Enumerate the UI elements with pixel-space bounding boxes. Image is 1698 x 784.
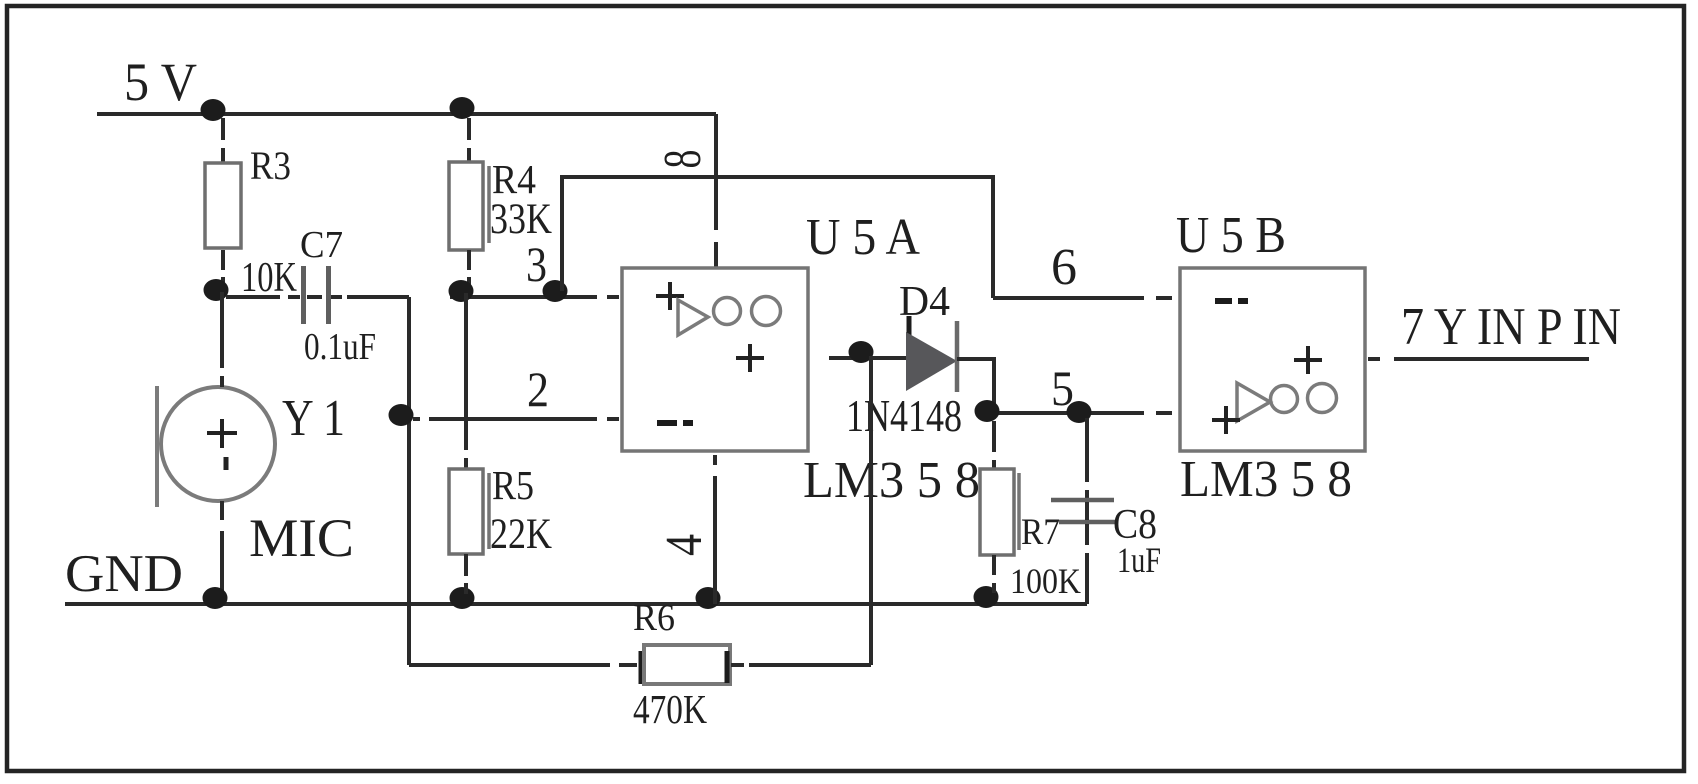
wire C7 node vertical branch [407, 297, 411, 665]
diode D4 [906, 316, 957, 392]
wire U5B output [1368, 357, 1589, 361]
wire D4 cathode to pin5 corner [957, 359, 994, 413]
resistor R3 [205, 163, 241, 248]
wire U5A output [829, 356, 906, 360]
wire pin6 input [993, 296, 1172, 300]
wire R4 bottom lead [467, 250, 471, 288]
svg-text:0.1uF: 0.1uF [304, 326, 376, 368]
wire pin3 input [450, 295, 619, 299]
svg-text:5 V: 5 V [124, 52, 197, 112]
svg-text:MIC: MIC [249, 508, 354, 568]
wire R3 bottom lead [221, 250, 225, 288]
node junction 5V-R3 [201, 99, 226, 121]
node GND-pin4 [696, 587, 721, 609]
svg-text:22K: 22K [490, 511, 552, 558]
resistor R5 [449, 469, 489, 554]
node GND-R7 [974, 586, 999, 608]
wire pin2 input [413, 417, 619, 421]
svg-text:1N4148: 1N4148 [846, 390, 962, 441]
resistor R6 [641, 645, 730, 684]
svg-text:GND: GND [65, 545, 183, 603]
node pin3-toplink [543, 280, 568, 302]
svg-text:R7: R7 [1021, 512, 1060, 553]
svg-text:2: 2 [527, 361, 549, 417]
capacitor C8 [1051, 500, 1118, 522]
node pin3-R4 [449, 280, 474, 302]
node output-feedback [849, 341, 874, 363]
svg-text:470K: 470K [633, 686, 707, 732]
svg-text:8: 8 [654, 150, 712, 169]
svg-text:R5: R5 [492, 462, 534, 508]
svg-text:100K: 100K [1010, 561, 1081, 601]
svg-text:D4: D4 [899, 279, 950, 325]
svg-text:R3: R3 [250, 143, 291, 188]
node GND-MIC [203, 587, 228, 609]
microphone Y1 [157, 386, 275, 507]
resistor R4 [449, 162, 489, 250]
svg-text:1uF: 1uF [1117, 540, 1161, 580]
wire 5V rail [97, 112, 716, 116]
wire pin5 input [994, 411, 1172, 415]
wire R4-R5 vertical [464, 293, 468, 469]
svg-text:C7: C7 [300, 224, 343, 266]
wire Y1 top lead [220, 292, 224, 387]
op-amp U5A [622, 268, 808, 451]
wire Y1 bottom lead [220, 501, 224, 604]
wire pin3 to pin6 top link [562, 177, 993, 298]
wire feedback riser [869, 356, 873, 665]
wire C7 left lead [226, 295, 300, 299]
node junction 5V-R4 [450, 97, 475, 119]
wire R7 bottom lead [992, 555, 996, 593]
wire C8 bottom lead [1085, 502, 1089, 604]
wire GND rail [65, 602, 1087, 606]
node pin2-feedback [389, 404, 414, 426]
svg-text:U 5 A: U 5 A [806, 209, 920, 266]
svg-text:6: 6 [1051, 239, 1077, 296]
capacitor C7 [304, 266, 329, 324]
svg-text:Y 1: Y 1 [282, 390, 345, 447]
node pin5-R7 [975, 400, 1000, 422]
resistor R7 [980, 469, 1019, 555]
svg-text:LM3 5 8: LM3 5 8 [803, 452, 980, 509]
wire feedback bottom run [409, 663, 637, 667]
wire C8 top lead [1085, 418, 1089, 498]
node GND-R5 [450, 587, 475, 609]
wire R6 right to riser [731, 663, 871, 667]
wire R7 top lead [992, 421, 996, 469]
svg-text:LM3 5 8: LM3 5 8 [1180, 451, 1352, 508]
wire R4 top lead [467, 118, 471, 162]
svg-text:7 Y IN P IN: 7 Y IN P IN [1401, 298, 1621, 356]
op-amp U5B [1180, 268, 1365, 451]
wire pin4 lead [713, 455, 717, 604]
svg-text:3: 3 [526, 236, 547, 292]
node R3-C7-MIC junction [204, 279, 229, 301]
svg-text:U 5 B: U 5 B [1176, 207, 1286, 264]
wire R5 bottom lead [464, 554, 468, 594]
wire C7 right lead [307, 295, 409, 299]
svg-text:5: 5 [1051, 360, 1074, 416]
svg-text:R6: R6 [633, 597, 675, 639]
svg-text:10K: 10K [241, 255, 297, 301]
node pin5-C8 [1067, 401, 1092, 423]
wire R3 top lead [221, 118, 225, 163]
wire pin8 supply lead [714, 114, 718, 268]
svg-text:4: 4 [656, 534, 713, 556]
